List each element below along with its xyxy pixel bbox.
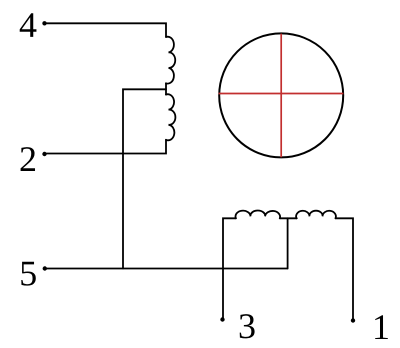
inductor L1 (phase A upper winding) (166, 37, 175, 84)
label 1 (375, 315, 388, 339)
wire terminal 3 drop (223, 218, 236, 319)
wire center tap B to node (287, 218, 289, 268)
wire right winding to terminal 1 (336, 218, 353, 320)
terminal dot 1 (351, 318, 355, 322)
wire between windings (center tap segment) (165, 83, 167, 94)
rotor cross vertical (280, 34, 282, 158)
wire terminal 5 common (45, 268, 288, 270)
terminal dot 4 (42, 21, 46, 25)
rotor cross horizontal (219, 93, 344, 95)
wire lower coil to terminal 2 (45, 140, 167, 154)
rotor circle (219, 33, 343, 157)
terminal dot 2 (42, 152, 46, 156)
wire center tap A to node (123, 89, 166, 268)
label 3 (240, 314, 255, 338)
wire between phase B windings (280, 217, 297, 219)
label 2 (21, 147, 35, 171)
label 5 (21, 262, 36, 286)
inductor L2 (phase A lower winding) (166, 94, 175, 140)
wire terminal 4 to top coil (45, 23, 167, 37)
inductor L3 (phase B left winding) (236, 210, 281, 218)
terminal dot 3 (220, 317, 224, 321)
label 4 (20, 13, 37, 37)
terminal dot 5 (43, 266, 47, 270)
inductor L4 (phase B right winding) (296, 211, 336, 219)
